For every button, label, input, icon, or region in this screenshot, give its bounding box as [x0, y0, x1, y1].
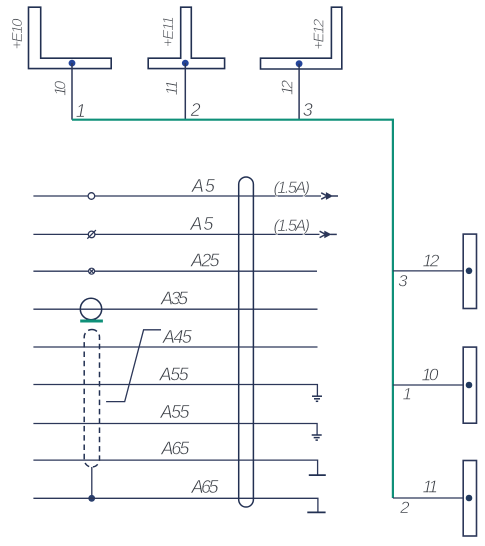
terminal dot on E10 — [69, 60, 76, 67]
svg-text:3: 3 — [398, 272, 408, 291]
crossed contact circle on line 3 — [89, 268, 95, 274]
terminal dot on E12 — [296, 60, 303, 67]
svg-text:A35: A35 — [160, 289, 189, 309]
svg-text:+E10: +E10 — [9, 18, 26, 50]
arrow on line 2 — [320, 231, 337, 237]
ground symbol for line 7 — [312, 435, 322, 440]
pin dot 3 — [466, 495, 473, 502]
lamp circle on line 4 — [80, 298, 101, 319]
leader line from shield to A45 label — [106, 330, 161, 402]
connector pin rect 1 — [463, 234, 476, 308]
arrow on line 1 — [321, 193, 338, 199]
svg-text:A5: A5 — [191, 176, 216, 196]
wire A25 line 3 — [33, 270, 317, 272]
connector pin rect 3 — [463, 461, 476, 537]
contact circle on line 1 — [88, 193, 95, 200]
svg-text:A45: A45 — [162, 327, 193, 347]
svg-text:(1.5A): (1.5A) — [274, 217, 311, 235]
svg-text:A55: A55 — [159, 365, 190, 385]
shield drain wire — [91, 467, 93, 498]
svg-text:1: 1 — [403, 385, 412, 404]
wire A65 line 8 — [33, 460, 317, 475]
junction dot on line 9 — [88, 495, 95, 502]
wire A35 line 4 — [33, 308, 317, 310]
connector pin rect 2 — [463, 347, 476, 423]
connector line 10/1 — [393, 384, 463, 386]
wire A45 line 5 — [33, 346, 317, 348]
wire A5 line 2 — [33, 233, 319, 235]
svg-text:A65: A65 — [160, 439, 190, 459]
svg-text:A55: A55 — [160, 402, 191, 422]
svg-text:+E12: +E12 — [311, 18, 328, 50]
cable capsule — [239, 177, 254, 507]
svg-text:A25: A25 — [190, 251, 220, 271]
shield dashed capsule — [84, 330, 99, 468]
svg-text:3: 3 — [303, 100, 313, 120]
svg-text:11: 11 — [423, 477, 439, 497]
svg-text:2: 2 — [190, 100, 201, 120]
svg-text:A5: A5 — [189, 214, 214, 234]
busbar E11 T-shape symbol — [148, 7, 224, 68]
teal mark under lamp — [80, 320, 103, 323]
pin dot 1 — [466, 268, 473, 275]
wire from E12 down to bus — [298, 64, 300, 120]
pin dot 2 — [466, 382, 473, 389]
slashed contact circle on line 2 — [87, 230, 96, 239]
wire from E10 down to bus — [71, 63, 73, 120]
wire A65 line 9 — [33, 498, 318, 512]
busbar E12 mirrored-L symbol — [261, 7, 342, 69]
svg-text:2: 2 — [399, 498, 410, 517]
connector line 12/3 — [393, 270, 463, 272]
svg-text:+E11: +E11 — [160, 16, 177, 47]
svg-text:12: 12 — [423, 251, 440, 271]
svg-text:11: 11 — [164, 80, 181, 95]
svg-text:10: 10 — [422, 365, 439, 385]
svg-text:10: 10 — [53, 81, 70, 96]
chassis ground for line 9 — [307, 511, 325, 513]
green bus wire — [72, 120, 393, 498]
wire A5 line 1 — [33, 195, 321, 197]
busbar E10 L-shape symbol — [29, 7, 112, 68]
wire A55 line 7 — [33, 424, 317, 436]
svg-text:12: 12 — [279, 80, 296, 95]
connector line 11/2 — [393, 497, 463, 499]
svg-text:(1.5A): (1.5A) — [274, 179, 311, 197]
chassis ground for line 8 — [309, 474, 326, 476]
ground symbol for line 6 — [312, 396, 322, 401]
wire A55 line 6 — [33, 385, 317, 397]
svg-text:1: 1 — [76, 101, 86, 121]
svg-text:A65: A65 — [191, 477, 220, 497]
terminal dot on E11 — [182, 60, 189, 67]
wire from E11 down to bus — [184, 63, 186, 120]
